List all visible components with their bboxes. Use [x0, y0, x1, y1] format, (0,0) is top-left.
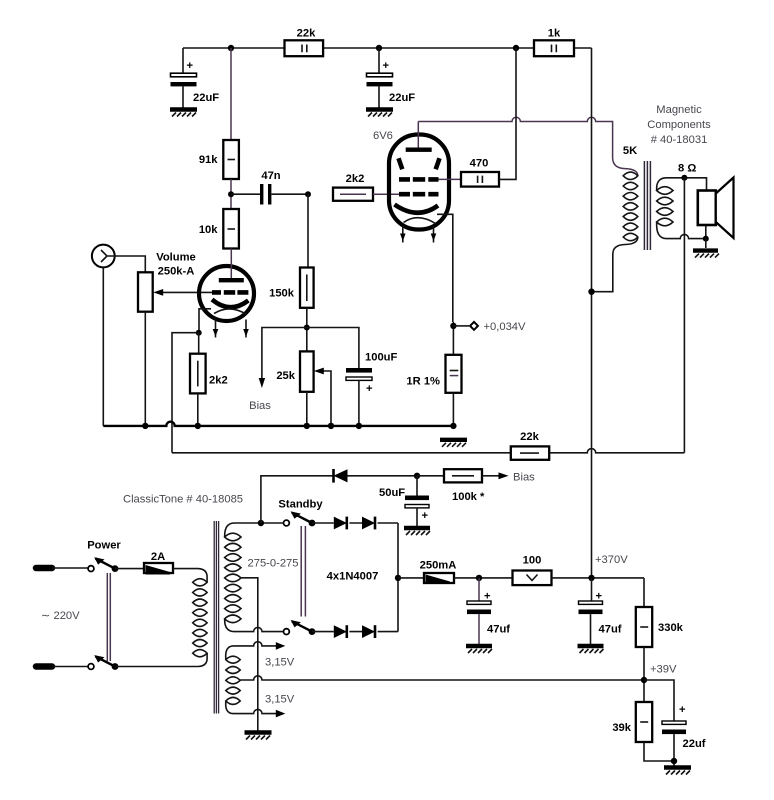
svg-text:ClassicTone # 40-18085: ClassicTone # 40-18085	[123, 494, 243, 506]
capacitor 100uF	[346, 352, 397, 426]
tube V2 6V6 envelope	[373, 130, 449, 230]
svg-text:100: 100	[523, 555, 542, 567]
6V6 cathode arc	[395, 205, 439, 213]
6V6 heater leads with arrows	[400, 226, 436, 243]
wire plug to power switch top	[52, 567, 88, 569]
ground below right 22uF	[366, 110, 393, 117]
heater top lead with arrow (hop over CT)	[226, 642, 286, 660]
svg-text:4x1N4007: 4x1N4007	[327, 571, 379, 583]
svg-text:47uf: 47uf	[599, 624, 622, 636]
svg-text:47n: 47n	[261, 170, 280, 182]
ground below speaker	[693, 251, 719, 258]
node +39V junction	[641, 664, 677, 684]
svg-text:2A: 2A	[151, 551, 165, 563]
svg-text:Bias: Bias	[513, 472, 535, 484]
diode D1 bias (pointing left)	[334, 469, 418, 483]
mains plug pin top	[36, 565, 52, 572]
svg-text:+39V: +39V	[650, 664, 677, 676]
PT heater winding 2	[226, 687, 240, 704]
feedback wire to 22k (hop at B+ vertical)	[172, 449, 684, 453]
svg-text:100uF: 100uF	[365, 352, 397, 364]
ground symbol below rail	[440, 440, 467, 447]
svg-text:470: 470	[470, 158, 489, 170]
wire 6V6 plate to OPT (with hops)	[418, 117, 638, 176]
mains plug pin bottom	[36, 663, 52, 670]
wire 1k to B+ vertical	[591, 48, 593, 578]
resistor 2k2 coupling	[333, 173, 373, 201]
resistor 22k feedback	[511, 431, 549, 460]
resistor 100	[513, 555, 645, 586]
volume wiper arrow to V1 grid	[153, 289, 212, 296]
PT HT winding 275-0-275	[225, 533, 299, 622]
node bias junction	[414, 473, 420, 479]
node 6V6 cathode junction	[450, 323, 456, 329]
svg-text:8 Ω: 8 Ω	[678, 163, 696, 175]
svg-text:91k: 91k	[199, 154, 218, 166]
wire 91k to 10k with node	[228, 179, 234, 209]
svg-text:5K: 5K	[623, 145, 637, 157]
V1 cathode arc	[212, 300, 248, 308]
capacitor 47uf second	[579, 578, 622, 644]
svg-text:∼ 220V: ∼ 220V	[41, 610, 80, 622]
wire jack to volume pot	[115, 256, 146, 272]
OPT secondary winding	[657, 187, 673, 226]
resistor 330k	[636, 578, 684, 702]
node junction dots on top rail	[228, 45, 519, 51]
svg-text:100k *: 100k *	[452, 491, 485, 503]
resistor 10k	[199, 209, 239, 249]
svg-text:+370V: +370V	[595, 554, 628, 566]
svg-text:# 40-18031: # 40-18031	[651, 134, 708, 146]
wire plug to power switch bottom	[52, 666, 88, 668]
wire volume bottom to ground rail	[144, 312, 146, 426]
svg-text:150k: 150k	[269, 288, 295, 300]
svg-text:Power: Power	[87, 540, 121, 552]
svg-text:50uF: 50uF	[379, 487, 405, 499]
6V6 screen lead	[439, 178, 462, 180]
wire 25k bottom to rail	[306, 392, 308, 426]
PT primary winding	[193, 579, 207, 657]
PT heater winding 1	[226, 656, 240, 684]
resistor 1k	[534, 28, 574, 57]
6V6 plate	[406, 122, 432, 152]
wire jack ground lead	[102, 267, 104, 426]
wire 2k2 to rail	[197, 393, 199, 426]
svg-text:39k: 39k	[612, 722, 631, 734]
wire junction to 100uF	[307, 328, 359, 369]
svg-text:+: +	[422, 510, 429, 522]
wire 2k2 to 6V6 grid	[373, 193, 399, 195]
wire V1 cathode to 2k2	[198, 333, 200, 354]
label Magnetic Components	[647, 104, 711, 146]
ground rail with hop	[103, 422, 456, 429]
svg-text:22k: 22k	[520, 431, 539, 443]
terminal +0,034V	[453, 321, 526, 333]
wire 150k top	[307, 194, 309, 267]
switch mechanical link	[107, 573, 110, 661]
svg-text:250mA: 250mA	[420, 560, 457, 572]
V1 cathode lead	[196, 309, 211, 336]
tube V1 triode envelope	[199, 266, 254, 321]
svg-text:22uF: 22uF	[193, 92, 219, 104]
standby mechanical link	[301, 526, 305, 617]
resistor 150k	[269, 268, 313, 308]
svg-text:3,15V: 3,15V	[265, 693, 295, 705]
PT HT bottom lead (hop over CT)	[225, 619, 284, 632]
svg-text:+: +	[383, 60, 390, 72]
V1 plate	[219, 249, 244, 283]
ground bottom right	[664, 768, 691, 775]
rectifier diodes bottom pair	[312, 625, 398, 638]
switch Power bottom pole	[88, 655, 118, 670]
6V6 heater arc	[404, 218, 436, 224]
svg-text:+: +	[679, 704, 686, 716]
svg-text:6V6: 6V6	[373, 130, 393, 142]
wire rectifier output vertical	[395, 523, 401, 632]
capacitor 47n	[231, 170, 308, 205]
6V6 screen grid dashes	[399, 177, 439, 182]
feedback line from speaker down	[683, 178, 685, 453]
rectifier diodes top pair	[312, 517, 398, 583]
potentiometer Volume 250k-A	[138, 252, 196, 312]
ground below PT	[245, 733, 272, 740]
resistor 1R 1%	[406, 322, 461, 426]
OPT primary bottom lead	[588, 237, 638, 295]
capacitor 50uF	[379, 476, 429, 526]
V1 heater leads with arrows	[213, 320, 249, 338]
svg-text:Volume: Volume	[156, 252, 196, 264]
wire top supply rail	[183, 47, 592, 49]
svg-text:25k: 25k	[276, 370, 295, 382]
resistor 39k	[612, 702, 674, 761]
svg-text:22uf: 22uf	[683, 738, 706, 750]
capacitor 47uf first	[467, 578, 510, 644]
switch Standby bottom pole	[284, 620, 316, 635]
node 47uf-1 junction	[476, 575, 482, 581]
OPT 5K primary winding	[623, 145, 638, 241]
svg-text:1R 1%: 1R 1%	[406, 376, 440, 388]
OPT secondary top lead	[657, 163, 707, 191]
wire switch to PT primary bottom	[115, 653, 207, 666]
6V6 control grid dashes	[399, 192, 439, 197]
svg-text:+0,034V: +0,034V	[484, 321, 527, 333]
svg-text:Standby: Standby	[278, 499, 323, 511]
potentiometer 25k	[276, 351, 313, 391]
switch Standby top pole	[278, 499, 323, 527]
svg-text:3,15V: 3,15V	[265, 656, 295, 668]
svg-text:+: +	[366, 383, 373, 395]
switch Power top pole	[87, 540, 121, 572]
svg-text:+: +	[596, 591, 603, 603]
OPT core	[644, 161, 650, 250]
svg-text:275-0-275: 275-0-275	[248, 558, 299, 570]
fuse 250mA	[398, 560, 513, 585]
capacitor 22uf	[644, 680, 706, 766]
label 220V	[41, 610, 80, 622]
25k wiper arrow	[314, 368, 331, 426]
PT core	[214, 521, 218, 714]
svg-text:22uF: 22uF	[389, 92, 415, 104]
resistor 100k*	[417, 469, 535, 503]
wire 470 to screen supply	[499, 48, 516, 179]
ground below left 22uF	[170, 110, 197, 117]
resistor 2k2 cathode	[190, 354, 228, 394]
ground below 47uf-2	[578, 646, 604, 653]
bias test arrow	[249, 328, 307, 413]
wire from rail down to 91k	[230, 48, 232, 140]
node +370V junction	[588, 554, 628, 581]
speaker LS	[698, 178, 734, 239]
wire V1 cathode to feedback	[172, 333, 199, 453]
label ClassicTone	[123, 494, 243, 506]
svg-text:330k: 330k	[658, 622, 684, 634]
PT HT top lead	[225, 520, 284, 537]
svg-text:22k: 22k	[297, 28, 316, 40]
heater bottom lead with arrow	[226, 701, 286, 717]
wire 150k bottom to junction	[304, 308, 310, 352]
V1 heater arc	[214, 309, 247, 315]
OPT secondary bottom lead (hop over feedback)	[657, 222, 709, 248]
labels 3,15V	[265, 656, 295, 705]
svg-text:Components: Components	[647, 119, 711, 131]
6V6 beam plates	[399, 158, 440, 169]
resistor 470	[461, 158, 499, 187]
wire fuse to PT primary	[173, 569, 207, 583]
ground below 50uF	[404, 528, 430, 535]
svg-text:Bias: Bias	[249, 400, 271, 412]
svg-text:+: +	[484, 591, 491, 603]
svg-text:2k2: 2k2	[346, 173, 365, 185]
PT HT centre tap	[241, 578, 258, 731]
capacitor C 22uF right	[367, 48, 416, 108]
svg-text:10k: 10k	[199, 224, 218, 236]
node ground junction bottom right	[671, 758, 677, 764]
fuse 2A	[115, 551, 173, 575]
input jack J1	[92, 245, 116, 268]
svg-text:47uf: 47uf	[487, 624, 510, 636]
node junction 47n / 2k2 / 150k	[305, 191, 311, 197]
wire HT top to bias diode	[261, 476, 333, 523]
capacitor C 22uF left	[171, 48, 220, 108]
svg-text:2k2: 2k2	[209, 375, 228, 387]
6V6 cathode lead wire	[437, 214, 453, 322]
svg-text:250k-A: 250k-A	[158, 266, 195, 278]
svg-text:+: +	[187, 60, 194, 72]
ground below 47uf-1	[466, 646, 492, 653]
V1 grid dashes	[212, 290, 248, 295]
svg-text:1k: 1k	[548, 28, 561, 40]
svg-text:Magnetic: Magnetic	[656, 104, 702, 116]
resistor 22k (top)	[285, 28, 324, 57]
heater centre tap long wire to +39V	[240, 676, 644, 680]
resistor 91k	[199, 140, 239, 179]
